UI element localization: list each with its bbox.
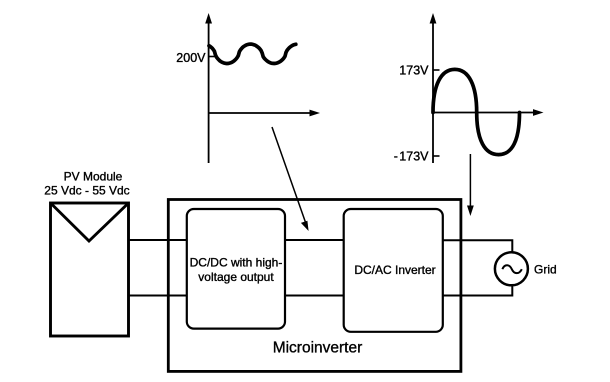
svg-text:-173V: -173V: [394, 150, 429, 164]
arrow from ripple graph to DC link wire: [272, 127, 309, 231]
DC/AC inverter block: [344, 209, 443, 332]
PV module chevron: [51, 203, 129, 241]
grid AC source sine symbol: [502, 265, 521, 273]
DC/DC converter block: [187, 209, 285, 329]
right graph tick 173V: [433, 69, 440, 71]
left graph x-axis: [209, 110, 320, 117]
svg-text:173V: 173V: [399, 64, 429, 78]
wire: AC output bottom to grid: [443, 285, 513, 296]
DC ripple waveform: [209, 44, 296, 63]
PV module box: [51, 203, 129, 336]
svg-text:200V: 200V: [176, 51, 206, 65]
wire: DC link bottom: [285, 295, 344, 297]
svg-text:DC/DC with high-: DC/DC with high-: [190, 256, 283, 270]
wire: PV to DC/DC top: [129, 239, 187, 241]
svg-text:DC/AC Inverter: DC/AC Inverter: [354, 263, 435, 277]
svg-text:Microinverter: Microinverter: [273, 340, 363, 357]
left graph y-axis: [205, 13, 212, 163]
svg-text:Grid: Grid: [534, 263, 557, 277]
svg-text:25 Vdc - 55 Vdc: 25 Vdc - 55 Vdc: [44, 184, 129, 198]
microinverter enclosure box: [168, 200, 461, 372]
svg-text:voltage output: voltage output: [198, 270, 274, 284]
svg-text:PV Module: PV Module: [64, 170, 123, 184]
right graph x-axis: [433, 109, 544, 116]
right graph tick -173V: [433, 155, 440, 157]
label DC/DC with high-voltage output: [190, 256, 283, 285]
wire: AC output top to grid: [443, 240, 513, 253]
left graph tick 200V: [209, 56, 215, 58]
AC sine waveform: [433, 69, 520, 154]
wire: DC link top: [285, 239, 344, 241]
arrow from sine graph to AC output: [467, 154, 474, 216]
wire: PV to DC/DC bottom: [129, 295, 187, 297]
grid AC source circle: [495, 252, 528, 285]
right graph y-axis: [430, 13, 437, 163]
